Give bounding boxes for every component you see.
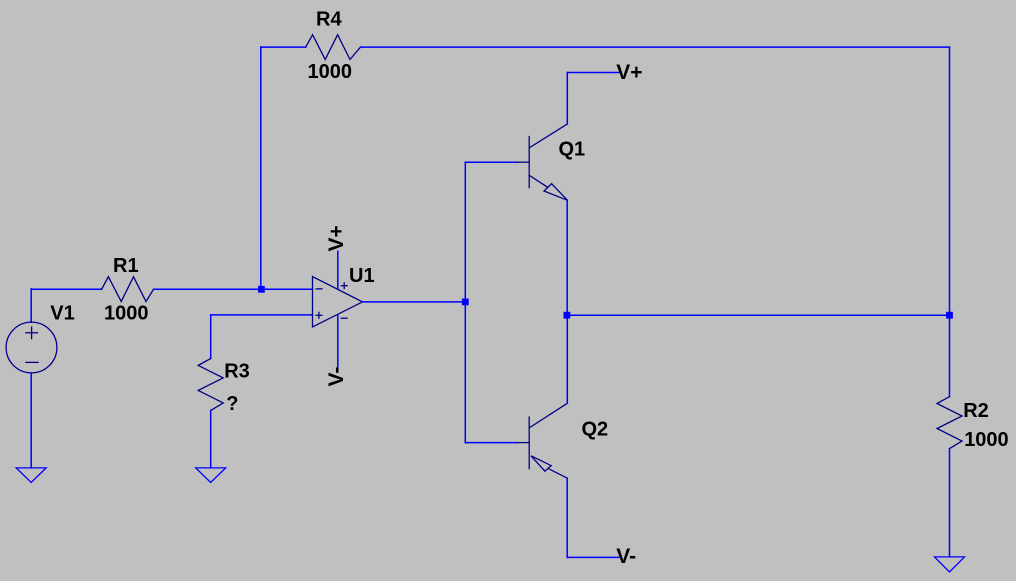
transistor Q2 xyxy=(517,403,568,478)
wire bases vertical xyxy=(464,162,466,442)
wire R4 left vertical xyxy=(260,47,262,289)
resistor R2 xyxy=(937,397,962,449)
wire Q1 emitter vertical xyxy=(566,200,568,315)
resistor R1 xyxy=(102,277,154,302)
wire R3 top horizontal to opamp noninverting input xyxy=(211,314,313,316)
junction node R2 top xyxy=(946,312,953,319)
svg-text:Q1: Q1 xyxy=(559,138,586,160)
svg-text:1000: 1000 xyxy=(308,61,353,83)
wire right side vertical to R2 xyxy=(949,47,951,315)
svg-text:V+: V+ xyxy=(616,61,642,84)
transistor Q1 xyxy=(517,124,568,200)
svg-text:R4: R4 xyxy=(316,9,342,31)
ground below R2 xyxy=(935,557,965,572)
wire Q2 collector vertical xyxy=(566,315,568,403)
wire R4 left horizontal xyxy=(261,46,306,48)
junction node R1/R4/U1 xyxy=(258,286,265,293)
svg-text:1000: 1000 xyxy=(104,303,149,325)
wire opamp V- supply stub xyxy=(337,316,339,367)
wire R4 right horizontal xyxy=(361,46,950,48)
wire V1 to R1 horizontal xyxy=(31,288,101,290)
resistor R4 xyxy=(306,35,361,60)
junction node output xyxy=(564,312,571,319)
wire V1 bottom vertical xyxy=(30,373,32,468)
wire R1 to opamp inverting input xyxy=(154,288,313,290)
wire opamp V+ supply stub xyxy=(337,251,339,288)
wire V+ horizontal at Q1 xyxy=(567,72,618,74)
svg-text:V-: V- xyxy=(616,545,636,568)
wire Q1 collector vertical xyxy=(566,73,568,125)
wire opamp output xyxy=(363,301,466,303)
wire Q2 emitter vertical xyxy=(566,478,568,557)
svg-text:V-: V- xyxy=(325,367,348,387)
wire V1 top vertical xyxy=(30,289,32,322)
op-amp U1 xyxy=(313,277,363,327)
svg-text:Q2: Q2 xyxy=(582,419,609,441)
svg-text:R3: R3 xyxy=(224,360,250,382)
wire Q1 base horizontal xyxy=(465,161,517,163)
wire Q2 base horizontal xyxy=(465,442,517,444)
svg-text:R1: R1 xyxy=(113,255,139,277)
wire R3 bottom vertical xyxy=(210,411,212,468)
svg-text:?: ? xyxy=(226,393,238,415)
ground below V1 xyxy=(16,468,46,483)
ground below R3 xyxy=(196,468,226,483)
svg-text:R2: R2 xyxy=(963,400,989,422)
svg-text:V1: V1 xyxy=(50,303,74,325)
wire R2 top vertical xyxy=(949,315,951,396)
svg-text:V+: V+ xyxy=(325,225,348,251)
svg-text:1000: 1000 xyxy=(964,429,1009,451)
wire R3 top vertical xyxy=(210,315,212,359)
wire R2 bottom vertical xyxy=(949,449,951,557)
wire output horizontal to R2 xyxy=(567,314,950,316)
wire V- horizontal at Q2 xyxy=(567,556,619,558)
voltage source V1 xyxy=(6,322,57,373)
svg-text:U1: U1 xyxy=(349,265,375,287)
junction node opamp output / bases xyxy=(462,299,469,306)
resistor R3 xyxy=(198,359,223,411)
